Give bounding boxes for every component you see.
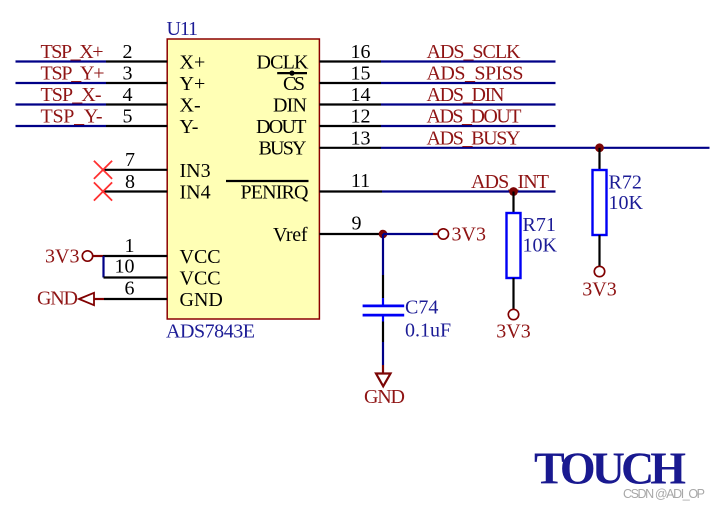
pin number 8 xyxy=(125,171,135,193)
net label ADS_DIN xyxy=(427,84,505,106)
svg-text:GND: GND xyxy=(180,289,223,311)
svg-text:GND: GND xyxy=(364,386,405,408)
svg-text:10K: 10K xyxy=(609,192,644,214)
value 10K R71 xyxy=(523,235,558,257)
power port 3V3 below R72 xyxy=(594,266,604,276)
pin number 3 xyxy=(123,63,133,85)
value 0.1uF xyxy=(405,319,451,341)
pin number 1 xyxy=(125,235,135,257)
pin 3 stub xyxy=(106,82,167,84)
svg-text:3V3: 3V3 xyxy=(45,246,79,268)
svg-text:4: 4 xyxy=(123,84,133,106)
svg-text:3V3: 3V3 xyxy=(452,224,486,246)
pin name Y+ xyxy=(180,73,206,95)
designator U11 xyxy=(167,18,199,40)
svg-text:TSP_X+: TSP_X+ xyxy=(41,41,104,63)
svg-text:BUSY: BUSY xyxy=(259,138,307,160)
svg-text:10: 10 xyxy=(115,256,135,278)
value 10K R72 xyxy=(609,192,644,214)
svg-text:C74: C74 xyxy=(405,297,438,319)
svg-text:TOUCH: TOUCH xyxy=(534,443,686,494)
net label ADS_SCLK xyxy=(427,41,522,63)
pin 15 stub xyxy=(319,82,381,84)
svg-text:Vref: Vref xyxy=(273,224,308,246)
svg-text:ADS_DIN: ADS_DIN xyxy=(427,84,505,106)
svg-text:13: 13 xyxy=(351,127,371,149)
wire net TSP_X- xyxy=(16,103,107,105)
svg-text:10K: 10K xyxy=(523,235,558,257)
resistor R72 xyxy=(593,170,607,235)
svg-text:1: 1 xyxy=(125,235,135,257)
pin number 6 xyxy=(125,278,135,300)
svg-text:Y-: Y- xyxy=(180,116,199,138)
pin name VCC pin1 xyxy=(180,246,221,268)
pin number 11 xyxy=(351,170,370,192)
svg-text:ADS_SPISS: ADS_SPISS xyxy=(427,63,524,85)
power port 3V3 left xyxy=(82,251,103,261)
pin 16 stub xyxy=(319,60,381,62)
wire net ADS_SCLK xyxy=(381,60,556,62)
wire net TSP_Y- xyxy=(16,125,107,127)
wire net ADS_INT xyxy=(382,190,556,192)
svg-text:DOUT: DOUT xyxy=(256,116,307,138)
wire BUSY node down to R72 xyxy=(598,148,600,170)
no-connect X pin8 xyxy=(94,182,112,200)
svg-text:R72: R72 xyxy=(609,172,642,194)
svg-text:ADS7843E: ADS7843E xyxy=(166,321,255,343)
junction on Vref node xyxy=(379,230,388,239)
wire C74 to GND xyxy=(382,322,384,375)
title TOUCH xyxy=(534,443,686,494)
svg-text:15: 15 xyxy=(351,63,371,85)
pin 10 stub xyxy=(104,276,168,278)
pin number 13 xyxy=(351,127,371,149)
net label TSP_X+ xyxy=(41,41,104,63)
pin name DCLK xyxy=(257,52,310,74)
wire Vref node down to C74 xyxy=(382,234,384,305)
pin name X- xyxy=(180,95,201,117)
watermark CSDN @ADI_OP xyxy=(623,487,705,501)
resistor R71 xyxy=(507,213,521,278)
pin 7 stub xyxy=(103,169,167,171)
svg-text:PENIRQ: PENIRQ xyxy=(241,182,310,204)
net label GND left xyxy=(37,288,78,310)
pin number 4 xyxy=(123,84,133,106)
svg-text:6: 6 xyxy=(125,278,135,300)
net label ADS_DOUT xyxy=(427,106,522,128)
net label ADS_BUSY xyxy=(427,127,521,149)
pin name PENIRQ xyxy=(241,182,310,204)
svg-text:GND: GND xyxy=(37,288,78,310)
pin 1 stub xyxy=(103,255,167,257)
svg-text:X+: X+ xyxy=(180,52,206,74)
wire net ADS_BUSY xyxy=(381,147,710,149)
net label ADS_SPISS xyxy=(427,63,524,85)
pin number 10 xyxy=(115,256,135,278)
designator R72 xyxy=(609,172,642,194)
pin name DOUT xyxy=(256,116,307,138)
svg-text:VCC: VCC xyxy=(180,246,221,268)
pin 14 stub xyxy=(319,103,381,105)
wire INT node down to R71 xyxy=(512,192,514,214)
pin number 12 xyxy=(351,106,371,128)
pin 11 stub xyxy=(319,190,382,192)
power port 3V3 below R71 xyxy=(508,309,518,319)
svg-text:Y+: Y+ xyxy=(180,73,206,95)
svg-text:DCLK: DCLK xyxy=(257,52,310,74)
pin number 2 xyxy=(123,41,133,63)
svg-text:IN3: IN3 xyxy=(180,160,211,182)
pin name GND pin6 xyxy=(180,289,223,311)
pin name Y- xyxy=(180,116,199,138)
pin 4 stub xyxy=(106,103,167,105)
svg-text:ADS_SCLK: ADS_SCLK xyxy=(427,41,522,63)
svg-text:12: 12 xyxy=(351,106,371,128)
svg-text:ADS_DOUT: ADS_DOUT xyxy=(427,106,522,128)
svg-text:IN4: IN4 xyxy=(180,182,211,204)
pin number 5 xyxy=(123,106,133,128)
net label 3V3 below R71 xyxy=(496,321,530,343)
pin 12 stub xyxy=(319,125,381,127)
pin 6 stub xyxy=(104,298,167,300)
pin name CS xyxy=(283,73,305,95)
no-connect X pin7 xyxy=(94,161,112,179)
svg-text:14: 14 xyxy=(351,84,371,106)
pin name IN3 xyxy=(180,160,211,182)
power port 3V3 at Vref xyxy=(438,229,448,239)
pin 8 stub xyxy=(103,190,167,192)
svg-text:16: 16 xyxy=(351,41,371,63)
pin 13 stub xyxy=(319,147,381,149)
wire R71 to 3V3 xyxy=(512,278,514,309)
pin name VCC pin10 xyxy=(180,268,221,290)
pin 9 stub xyxy=(319,233,383,235)
svg-text:TSP_Y-: TSP_Y- xyxy=(41,106,103,128)
designator R71 xyxy=(523,214,556,236)
svg-text:R71: R71 xyxy=(523,214,556,236)
junction on INT net xyxy=(509,187,518,196)
svg-text:3V3: 3V3 xyxy=(496,321,530,343)
ground port GND left xyxy=(79,293,104,305)
pin name X+ xyxy=(180,52,206,74)
wire R72 to 3V3 xyxy=(598,235,600,266)
net label ADS_INT xyxy=(471,171,549,193)
wire Vref to 3V3 xyxy=(383,233,438,235)
wire net TSP_Y+ xyxy=(16,82,107,84)
svg-text:5: 5 xyxy=(123,106,133,128)
svg-text:X-: X- xyxy=(180,95,201,117)
pin 2 stub xyxy=(106,60,167,62)
wire VCC vertical xyxy=(102,256,104,278)
svg-text:2: 2 xyxy=(123,41,133,63)
svg-text:ADS_BUSY: ADS_BUSY xyxy=(427,127,521,149)
pin number 9 xyxy=(352,213,362,235)
pin number 15 xyxy=(351,63,371,85)
wire net ADS_DOUT xyxy=(381,125,556,127)
part number ADS7843E xyxy=(166,321,255,343)
wire net TSP_X+ xyxy=(16,60,107,62)
capacitor C74 xyxy=(363,306,405,322)
pin name DIN xyxy=(273,95,307,117)
pin name Vref xyxy=(273,224,308,246)
svg-text:TSP_Y+: TSP_Y+ xyxy=(41,63,105,85)
svg-text:3V3: 3V3 xyxy=(582,279,616,301)
net label 3V3 below R72 xyxy=(582,279,616,301)
net label TSP_Y- xyxy=(41,106,103,128)
svg-text:CS: CS xyxy=(283,73,305,95)
svg-text:VCC: VCC xyxy=(180,268,221,290)
ground GND below C74 xyxy=(376,374,391,387)
svg-text:11: 11 xyxy=(351,170,370,192)
svg-text:9: 9 xyxy=(352,213,362,235)
svg-text:TSP_X-: TSP_X- xyxy=(41,84,102,106)
pin 5 stub xyxy=(106,125,167,127)
pin number 7 xyxy=(125,149,135,171)
pin name BUSY xyxy=(259,138,307,160)
svg-text:7: 7 xyxy=(125,149,135,171)
wire net ADS_DIN xyxy=(381,103,556,105)
net label TSP_X- xyxy=(41,84,102,106)
svg-text:3: 3 xyxy=(123,63,133,85)
designator C74 xyxy=(405,297,438,319)
overline of PENIRQ xyxy=(226,180,309,182)
net label 3V3 left xyxy=(45,246,79,268)
net label 3V3 at Vref xyxy=(452,224,486,246)
net label TSP_Y+ xyxy=(41,63,105,85)
svg-text:DIN: DIN xyxy=(273,95,307,117)
pin number 16 xyxy=(351,41,371,63)
IC U11 ADS7843E body xyxy=(167,39,319,319)
net label GND below C74 xyxy=(364,386,405,408)
pin number 14 xyxy=(351,84,371,106)
svg-text:U11: U11 xyxy=(167,18,199,40)
wire net ADS_SPISS xyxy=(381,82,556,84)
junction on BUSY net xyxy=(595,143,604,152)
svg-text:0.1uF: 0.1uF xyxy=(405,319,451,341)
pin name IN4 xyxy=(180,182,211,204)
svg-text:8: 8 xyxy=(125,171,135,193)
overline of CS xyxy=(277,71,307,76)
svg-text:CSDN @ADI_OP: CSDN @ADI_OP xyxy=(623,487,705,501)
